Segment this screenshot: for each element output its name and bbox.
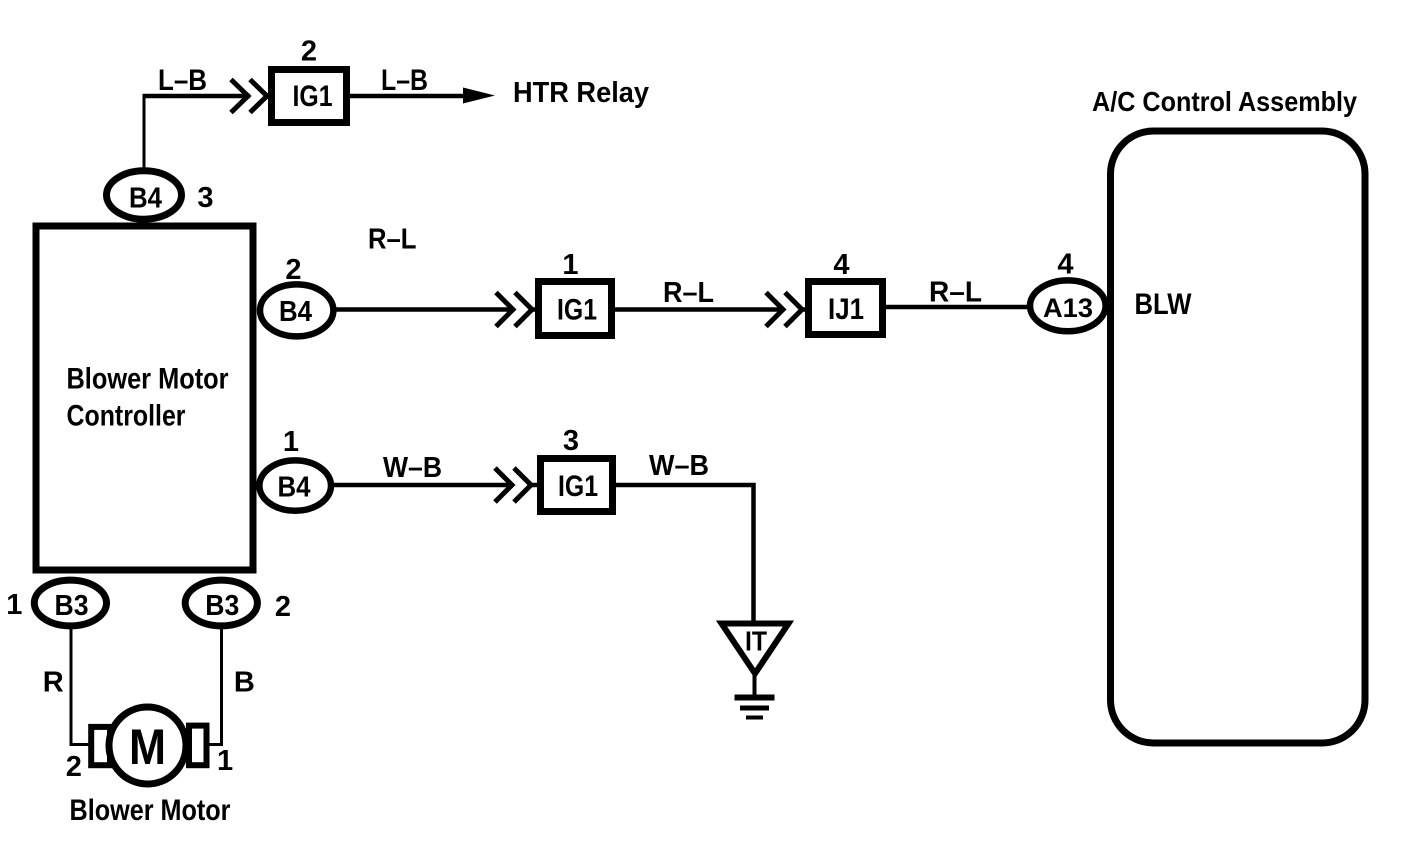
svg-text:3: 3 (197, 182, 213, 214)
connector box IG1 (pin 3, row 3) (541, 459, 613, 512)
svg-text:B3: B3 (55, 590, 89, 622)
svg-text:IG1: IG1 (558, 470, 598, 503)
wire R from B3 to motor (71, 627, 90, 745)
svg-text:1: 1 (217, 745, 233, 777)
wire L-B horizontal to IG1 (143, 94, 251, 99)
connector B4 pin 3 (top oval) (107, 171, 182, 219)
svg-text:R–L: R–L (368, 224, 417, 256)
svg-text:L–B: L–B (158, 64, 207, 97)
svg-text:4: 4 (1057, 249, 1073, 281)
chevron pair into IG1 (row 2) (496, 293, 537, 327)
svg-text:IG1: IG1 (293, 80, 333, 113)
svg-text:BLW: BLW (1135, 288, 1193, 321)
chevron pair into IG1 (row 1) (231, 80, 267, 113)
svg-text:B4: B4 (129, 183, 162, 215)
ground symbol (735, 698, 775, 718)
wire L-B from IG1 to HTR Relay (350, 94, 466, 99)
arrowhead to HTR Relay (463, 88, 495, 104)
wire R-L from IJ1 to A13 (883, 305, 1031, 310)
connector box IG1 (pin 1, row 2) (539, 282, 612, 336)
svg-text:W–B: W–B (383, 452, 442, 484)
chevron pair into IG1 (row 3) (495, 468, 537, 502)
svg-text:R: R (43, 667, 64, 699)
svg-text:IJ1: IJ1 (828, 293, 864, 326)
svg-text:B: B (234, 667, 255, 699)
connector B3 pin 1 (bottom left oval) (34, 580, 106, 626)
svg-text:M: M (129, 719, 166, 775)
svg-text:IG1: IG1 (557, 294, 597, 327)
svg-text:HTR Relay: HTR Relay (513, 77, 649, 109)
wire L-B vertical from B4 pin 3 (143, 98, 146, 172)
svg-text:1: 1 (283, 426, 299, 458)
svg-text:Controller: Controller (67, 400, 186, 433)
svg-text:IT: IT (745, 626, 767, 657)
wire W-B from IG1 down to ground (615, 485, 754, 621)
svg-text:2: 2 (301, 36, 317, 68)
ground triangle IT (722, 624, 789, 674)
connector B4 pin 2 (right oval, row 2) (260, 284, 333, 336)
svg-text:R–L: R–L (929, 277, 982, 309)
svg-text:W–B: W–B (649, 450, 709, 482)
connector B3 pin 2 (bottom right oval) (185, 580, 257, 626)
svg-text:R–L: R–L (663, 277, 714, 309)
svg-text:3: 3 (563, 425, 579, 457)
blower motor M (91, 707, 206, 784)
svg-text:2: 2 (275, 591, 291, 623)
svg-text:1: 1 (6, 589, 22, 621)
svg-text:B4: B4 (278, 472, 311, 504)
wire B from B3 to motor (208, 627, 222, 745)
svg-text:Blower Motor: Blower Motor (70, 794, 231, 827)
wire R-L from B4 to IG1 (row 2) (334, 307, 513, 312)
svg-text:1: 1 (562, 249, 578, 281)
svg-text:B4: B4 (279, 296, 312, 328)
A/C Control Assembly box (1111, 131, 1366, 743)
wire from triangle to ground (753, 673, 757, 696)
svg-text:A13: A13 (1043, 293, 1093, 323)
chevron pair into IJ1 (766, 293, 807, 327)
connector A13 pin 4 (oval) (1030, 280, 1106, 331)
connector box IJ1 (pin 4) (809, 282, 883, 335)
connector box IG1 (pin 2, row 1) (272, 70, 347, 123)
svg-text:L–B: L–B (381, 64, 428, 97)
connector B4 pin 1 (right oval, row 3) (259, 460, 331, 510)
svg-text:2: 2 (285, 254, 301, 286)
svg-text:A/C Control Assembly: A/C Control Assembly (1092, 86, 1357, 117)
wire W-B from B4 to IG1 (row 3) (332, 483, 512, 488)
wire R-L from IG1 to IJ1 (615, 307, 783, 312)
svg-text:Blower Motor: Blower Motor (67, 363, 229, 396)
svg-text:2: 2 (66, 751, 82, 783)
Blower Motor Controller box (36, 226, 253, 570)
svg-text:B3: B3 (205, 590, 239, 622)
svg-text:4: 4 (833, 249, 849, 281)
